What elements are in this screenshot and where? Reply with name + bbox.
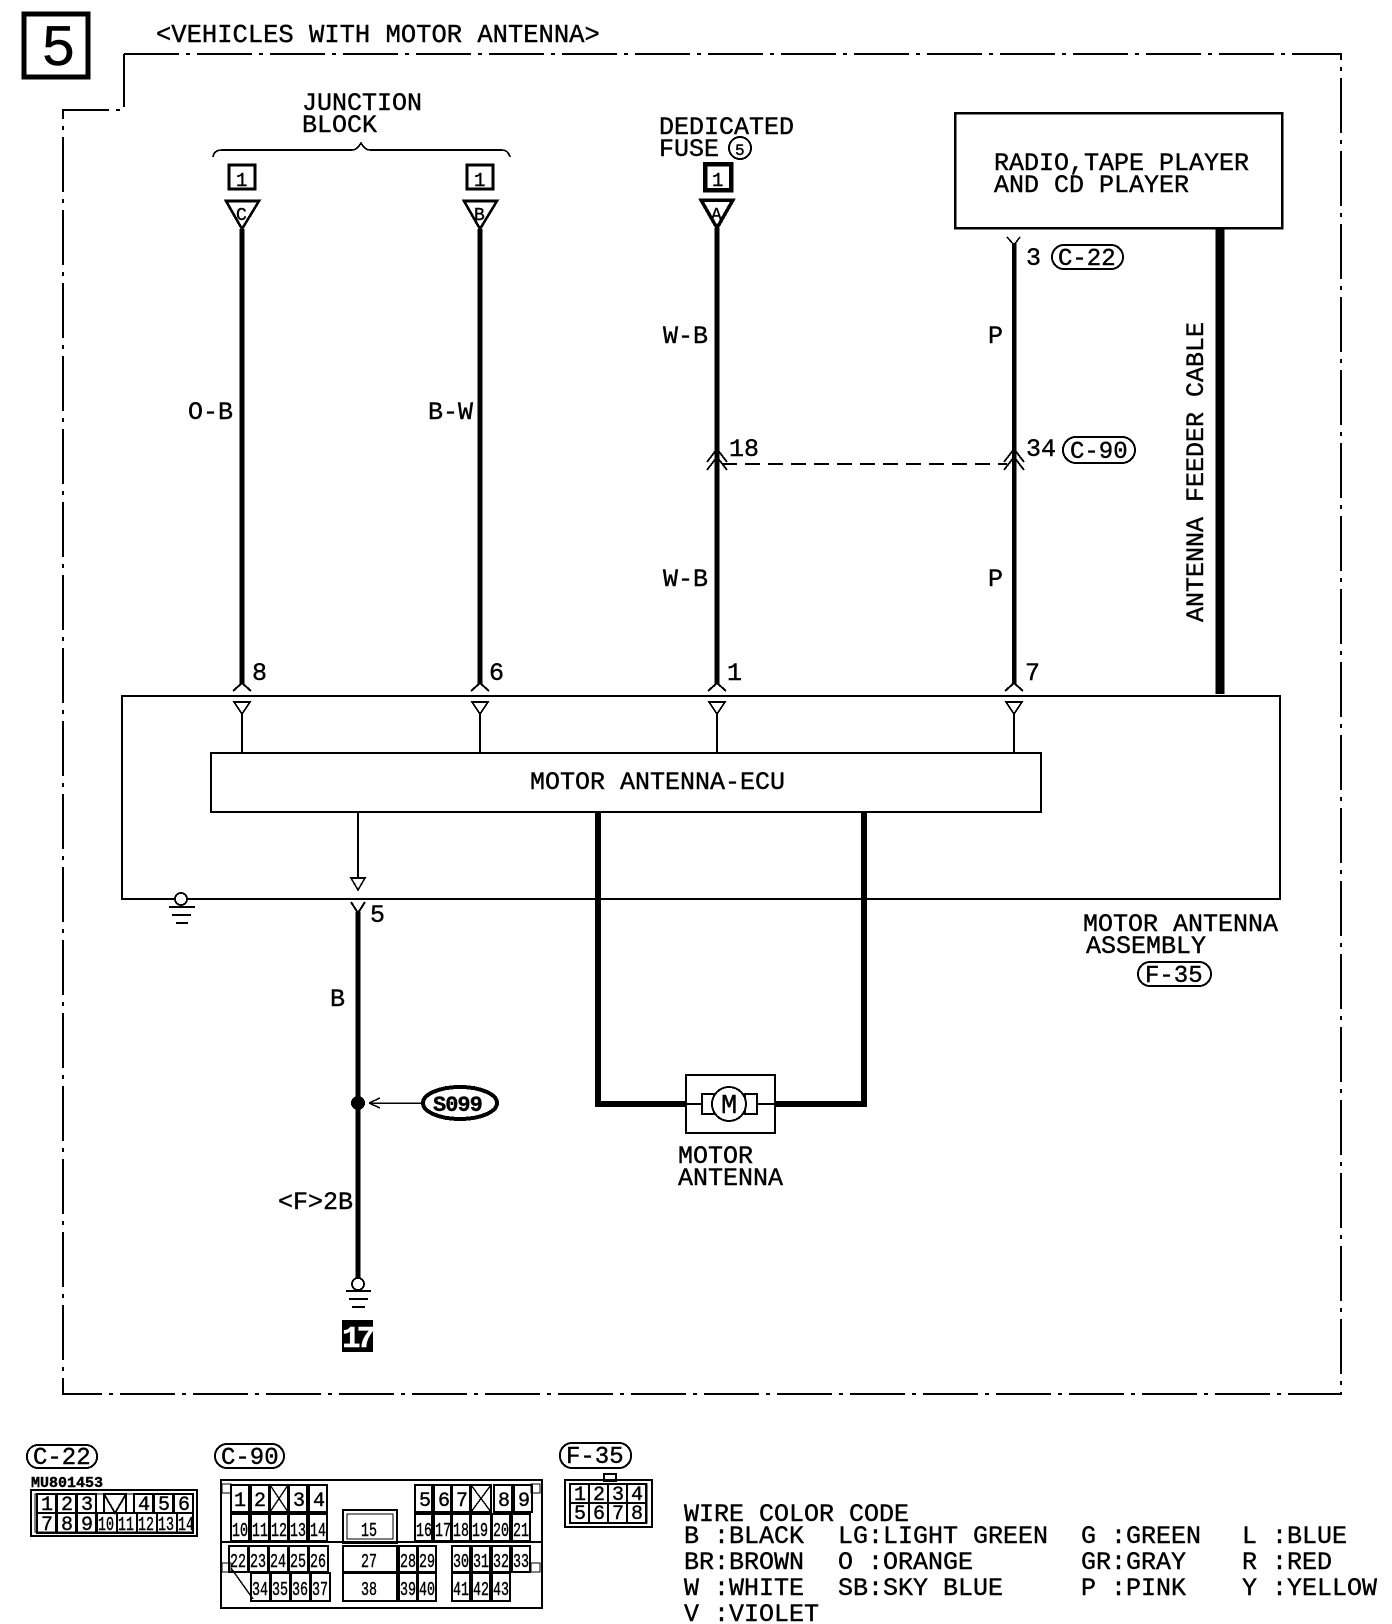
svg-text:25: 25	[290, 1551, 306, 1573]
splice S099 arrow	[369, 1098, 423, 1108]
connector C-90 pinout	[221, 1480, 542, 1608]
connector C junction block	[226, 165, 259, 229]
svg-text:21: 21	[513, 1520, 529, 1542]
splice S099 label	[423, 1087, 497, 1119]
svg-text:7: 7	[612, 1503, 624, 1526]
svg-text:BR:BROWN: BR:BROWN	[684, 1548, 804, 1577]
svg-text:12: 12	[271, 1520, 287, 1542]
wire P fork at radio box	[1007, 237, 1020, 245]
svg-text:16: 16	[416, 1520, 432, 1542]
svg-text:29: 29	[419, 1551, 435, 1573]
svg-text:<F>2B: <F>2B	[278, 1188, 353, 1217]
svg-text:11: 11	[252, 1520, 268, 1542]
motor antenna label	[678, 1142, 783, 1193]
svg-text:12: 12	[138, 1514, 154, 1536]
svg-text:35: 35	[272, 1579, 288, 1601]
svg-text:4: 4	[313, 1490, 325, 1513]
svg-text:B: B	[474, 206, 485, 226]
svg-text:15: 15	[361, 1520, 377, 1542]
svg-text:10: 10	[232, 1520, 248, 1542]
connector label C-22 inline	[1052, 245, 1123, 273]
svg-text:22: 22	[230, 1551, 246, 1573]
svg-text:26: 26	[310, 1551, 326, 1573]
dedicated fuse label	[659, 113, 794, 164]
svg-text:1: 1	[712, 170, 723, 192]
svg-text:40: 40	[419, 1579, 435, 1601]
chevrons on wire W-B at 18	[707, 449, 727, 470]
svg-text:O-B: O-B	[188, 398, 233, 427]
svg-text:M: M	[721, 1092, 737, 1122]
svg-text:38: 38	[361, 1579, 377, 1601]
svg-text:20: 20	[493, 1520, 509, 1542]
svg-text:GR:GRAY: GR:GRAY	[1081, 1548, 1186, 1577]
svg-text:SB:SKY BLUE: SB:SKY BLUE	[838, 1574, 1003, 1603]
svg-text:10: 10	[98, 1514, 114, 1536]
svg-text:V :VIOLET: V :VIOLET	[684, 1600, 819, 1624]
wire O-B	[240, 229, 245, 684]
svg-text:36: 36	[292, 1579, 308, 1601]
wire color code legend	[684, 1500, 1377, 1624]
svg-text:B-W: B-W	[428, 398, 473, 427]
svg-text:18: 18	[729, 435, 759, 464]
wire P fork at assembly box	[1005, 683, 1023, 691]
svg-text:19: 19	[472, 1520, 488, 1542]
fuse connector A	[701, 164, 733, 228]
svg-text:37: 37	[312, 1579, 328, 1601]
svg-text:34: 34	[1026, 435, 1056, 464]
svg-text:34: 34	[252, 1579, 268, 1601]
svg-text:ANTENNA: ANTENNA	[678, 1164, 783, 1193]
svg-text:39: 39	[400, 1579, 416, 1601]
svg-text:1: 1	[474, 170, 485, 192]
connector C-22 pinout	[31, 1490, 197, 1537]
motor antenna assembly label	[1083, 910, 1278, 961]
svg-text:C-90: C-90	[1070, 439, 1128, 466]
svg-text:5: 5	[735, 142, 745, 160]
connector F-35 pinout	[565, 1474, 652, 1527]
svg-text:28: 28	[400, 1551, 416, 1573]
svg-text:6: 6	[438, 1490, 450, 1513]
svg-text:R :RED: R :RED	[1242, 1548, 1332, 1577]
svg-text:8: 8	[631, 1503, 643, 1526]
svg-text:8: 8	[252, 659, 267, 688]
wire B-W	[478, 229, 483, 684]
pin 6 triangle inside assembly	[472, 702, 488, 753]
svg-text:23: 23	[250, 1551, 266, 1573]
svg-text:3: 3	[1026, 244, 1041, 273]
connector label C-90 inline	[1063, 437, 1135, 466]
svg-text:30: 30	[453, 1551, 469, 1573]
ground on assembly box	[169, 893, 195, 923]
pin 5 fork below assembly box	[351, 902, 365, 913]
svg-text:W-B: W-B	[663, 565, 708, 594]
svg-text:1: 1	[236, 170, 247, 192]
svg-text:P: P	[988, 322, 1003, 351]
motor drive wire right	[774, 812, 864, 1104]
svg-text:18: 18	[453, 1520, 469, 1542]
chevrons on wire P at 34	[1004, 449, 1024, 470]
svg-text:W-B: W-B	[663, 322, 708, 351]
svg-text:8: 8	[498, 1490, 510, 1513]
svg-text:11: 11	[118, 1514, 134, 1536]
ground reference box 17	[342, 1320, 374, 1357]
svg-text:AND CD PLAYER: AND CD PLAYER	[994, 171, 1189, 200]
connector label F-35 bottom	[560, 1443, 631, 1471]
radio tape player and cd player box	[955, 113, 1282, 228]
svg-text:Y :YELLOW: Y :YELLOW	[1242, 1574, 1377, 1603]
svg-text:13: 13	[290, 1520, 306, 1542]
motor drive wire left	[598, 812, 687, 1104]
svg-text:1: 1	[727, 659, 742, 688]
svg-text:7: 7	[41, 1514, 53, 1537]
svg-text:9: 9	[81, 1514, 93, 1537]
wire P	[1012, 243, 1017, 684]
svg-text:B :BLACK: B :BLACK	[684, 1522, 804, 1551]
page number box 5	[24, 14, 88, 83]
svg-text:A: A	[711, 206, 722, 226]
svg-text:3: 3	[293, 1490, 305, 1513]
svg-text:C: C	[236, 206, 247, 226]
svg-text:13: 13	[158, 1514, 174, 1536]
wire O-B fork at assembly box	[233, 683, 251, 691]
junction block bracket	[213, 143, 510, 157]
wire B	[356, 912, 361, 1278]
svg-text:ASSEMBLY: ASSEMBLY	[1086, 932, 1206, 961]
svg-text:G :GREEN: G :GREEN	[1081, 1522, 1201, 1551]
svg-text:31: 31	[473, 1551, 489, 1573]
splice node S099 junction dot	[351, 1096, 365, 1110]
svg-text:41: 41	[453, 1579, 469, 1601]
svg-text:9: 9	[518, 1490, 530, 1513]
ground at wire B end	[346, 1278, 371, 1307]
ECU ground wire with arrow	[351, 812, 365, 890]
svg-text:2: 2	[254, 1490, 266, 1513]
svg-text:ANTENNA FEEDER CABLE: ANTENNA FEEDER CABLE	[1182, 322, 1211, 622]
svg-text:<VEHICLES WITH MOTOR ANTENNA>: <VEHICLES WITH MOTOR ANTENNA>	[156, 21, 600, 50]
svg-text:42: 42	[473, 1579, 489, 1601]
svg-text:33: 33	[513, 1551, 529, 1573]
svg-text:P :PINK: P :PINK	[1081, 1574, 1186, 1603]
svg-text:FUSE: FUSE	[659, 135, 719, 164]
svg-text:7: 7	[1025, 659, 1040, 688]
connector label C-22 bottom	[27, 1445, 97, 1472]
antenna feeder cable	[1216, 228, 1225, 694]
svg-text:1: 1	[234, 1490, 246, 1513]
svg-text:S099: S099	[433, 1093, 482, 1118]
svg-text:8: 8	[61, 1514, 73, 1537]
wire W-B	[715, 228, 720, 684]
svg-text:MOTOR ANTENNA-ECU: MOTOR ANTENNA-ECU	[530, 768, 785, 797]
svg-text:F-35: F-35	[1145, 963, 1203, 990]
svg-text:BLOCK: BLOCK	[302, 111, 377, 140]
connector label F-35 inline	[1138, 962, 1211, 990]
svg-text:5: 5	[41, 18, 76, 83]
motor antenna motor M	[686, 1075, 775, 1133]
pin 1 triangle inside assembly	[709, 702, 725, 753]
junction block label	[302, 89, 422, 140]
svg-text:L :BLUE: L :BLUE	[1242, 1522, 1347, 1551]
svg-text:P: P	[988, 565, 1003, 594]
svg-text:C-90: C-90	[221, 1445, 279, 1472]
svg-text:LG:LIGHT GREEN: LG:LIGHT GREEN	[838, 1522, 1048, 1551]
connector B junction block	[464, 165, 497, 229]
svg-text:5: 5	[574, 1503, 586, 1526]
svg-text:17: 17	[342, 1322, 374, 1357]
svg-text:43: 43	[493, 1579, 509, 1601]
svg-text:C-22: C-22	[1058, 246, 1116, 273]
wire B-W fork at assembly box	[471, 683, 489, 691]
pin 8 triangle inside assembly	[234, 702, 250, 753]
pin 7 triangle inside assembly	[1006, 702, 1022, 753]
svg-text:5: 5	[419, 1490, 431, 1513]
svg-text:5: 5	[370, 901, 385, 930]
svg-text:27: 27	[361, 1551, 377, 1573]
wire W-B fork at assembly box	[708, 683, 726, 691]
svg-text:7: 7	[456, 1490, 468, 1513]
svg-text:14: 14	[178, 1514, 194, 1536]
svg-text:W :WHITE: W :WHITE	[684, 1574, 804, 1603]
svg-text:32: 32	[493, 1551, 509, 1573]
svg-text:O :ORANGE: O :ORANGE	[838, 1548, 973, 1577]
svg-text:F-35: F-35	[566, 1444, 624, 1471]
svg-text:C-22: C-22	[33, 1445, 91, 1472]
motor antenna ECU box	[211, 753, 1041, 812]
splice link 18-34 dashed	[722, 463, 1007, 465]
motor antenna assembly box	[122, 696, 1280, 899]
svg-text:6: 6	[489, 659, 504, 688]
svg-text:17: 17	[435, 1520, 451, 1542]
svg-text:B: B	[330, 985, 345, 1014]
svg-text:24: 24	[270, 1551, 286, 1573]
svg-text:6: 6	[593, 1503, 605, 1526]
svg-text:14: 14	[310, 1520, 326, 1542]
connector label C-90 bottom	[215, 1444, 284, 1472]
